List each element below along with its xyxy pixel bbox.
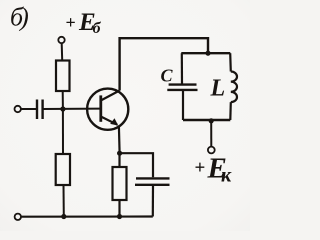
wire tank bottom bar <box>183 119 230 121</box>
node A (base divider junction) <box>60 106 65 111</box>
transistor Q1 emitter stroke with arrow <box>101 117 118 125</box>
wire collector up and right to tank <box>120 38 208 90</box>
wire R2 to bottom rail <box>63 185 65 217</box>
wire R2 top (base node down) <box>62 109 64 154</box>
wire input terminal to coupling cap <box>21 108 36 110</box>
svg-text:C: C <box>161 66 174 86</box>
label +Eб (base supply) <box>66 9 102 37</box>
transistor Q1 collector stroke <box>101 91 120 101</box>
terminal +Eб <box>58 37 64 43</box>
svg-text:б): б) <box>10 3 28 32</box>
wire tank top bar <box>181 52 230 54</box>
wire tank left down to capacitor C <box>181 53 183 83</box>
input terminal <box>15 106 21 112</box>
svg-text:+: + <box>66 13 76 33</box>
bottom rail wire <box>21 215 153 217</box>
svg-text:L: L <box>210 76 226 102</box>
node tank bottom junction <box>209 118 214 123</box>
wire bypass cap down to bottom rail <box>152 185 154 217</box>
svg-text:к: к <box>221 165 232 187</box>
wire R1 to base node <box>62 91 64 109</box>
wire coupling cap to transistor base <box>43 108 101 110</box>
node R2 bottom junction <box>61 214 66 219</box>
label +Eк (collector supply) <box>195 153 233 187</box>
node R3 bottom junction <box>117 214 122 219</box>
wire capacitor C down to tank bottom <box>182 90 184 120</box>
wire inductor down to tank bottom <box>229 102 232 120</box>
wire tank right down to inductor <box>229 53 232 71</box>
capacitor C1 coupling (plates) <box>37 100 43 120</box>
capacitor C2 emitter bypass plates <box>135 178 170 184</box>
resistor R3 (emitter) <box>113 167 127 200</box>
resistor R1 (upper bias) <box>56 61 70 92</box>
inductor L (coil bumps) <box>231 72 237 103</box>
capacitor C (tank) plates <box>167 85 197 90</box>
wire tank bottom to +Ek terminal <box>210 121 212 146</box>
resistor R2 (lower bias) <box>56 154 70 185</box>
wire terminal to R1 <box>61 43 64 60</box>
node emitter junction <box>117 151 122 156</box>
wire emitter node to resistor R3 <box>118 153 120 167</box>
terminal +Ek <box>208 147 215 154</box>
wire R3 to bottom rail <box>118 200 120 217</box>
wire emitter node right and down to bypass cap <box>120 153 153 177</box>
transistor Q1 base bar <box>99 95 102 121</box>
svg-text:б: б <box>93 20 102 37</box>
transistor Q1 (circle) <box>87 89 128 130</box>
svg-text:+: + <box>195 158 206 179</box>
wire emitter down to emitter node <box>118 126 121 153</box>
bottom-left terminal <box>15 214 21 220</box>
node tank top junction <box>205 51 210 56</box>
